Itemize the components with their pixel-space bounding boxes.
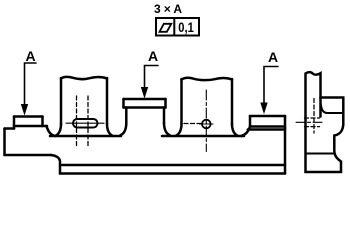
front view: right shoulder line <box>248 128 285 131</box>
svg-text:3 × A: 3 × A <box>154 2 182 16</box>
boss 1 cross-hole capsule <box>73 119 98 128</box>
boss 1 hidden hole right line <box>87 96 89 146</box>
svg-text:A: A <box>148 48 158 64</box>
section arrow A right: head <box>261 103 267 113</box>
section arrow A middle: head <box>142 88 148 98</box>
front view: right pad left edge <box>249 116 252 127</box>
side view outline <box>306 72 344 172</box>
side view step line <box>306 153 334 155</box>
front view: left step <box>5 127 15 130</box>
front view: middle pad rect top <box>124 98 166 101</box>
front view: left pad bottom line <box>14 125 47 128</box>
boss 2 centerline <box>205 90 207 152</box>
front view: web line under boss 2 <box>162 135 244 138</box>
front view: middle pad rect right <box>164 99 167 108</box>
boss 2 circle horizontal center mark <box>200 123 214 125</box>
front view: left pad top <box>14 115 43 118</box>
side view hole centerline <box>296 121 324 123</box>
boss 1 hidden hole left line <box>76 96 78 146</box>
front view: right pad left lower fillet <box>242 127 251 137</box>
boss 2 hidden horizontal line <box>184 123 202 125</box>
feature control frame box <box>156 18 199 36</box>
front view: boss 2 left base fillet <box>176 124 182 136</box>
section arrow A right: leader <box>264 67 278 105</box>
front view: left pad right edge <box>41 117 44 127</box>
front view: foot-to-rail fillet <box>51 155 60 174</box>
front view: boss 2 right edge <box>231 79 234 124</box>
front view: groove 1 left curve <box>47 126 56 136</box>
svg-text:A: A <box>26 48 36 64</box>
section arrow A left: head <box>22 105 28 115</box>
front view: middle pad rect left <box>122 99 125 108</box>
side view boss right edge lower extension <box>319 98 322 117</box>
feature control frame divider <box>173 18 175 36</box>
front view: middle pad pedestal right edge <box>163 108 166 124</box>
side view hole top hidden line <box>305 117 320 119</box>
front view: boss 2 right base fillet <box>232 124 238 136</box>
front view: left pad left edge <box>13 117 16 129</box>
front view: right pad top <box>250 115 285 118</box>
front view: pedestal 2 right fillet <box>164 123 170 135</box>
section arrow A left: leader <box>25 63 37 106</box>
front view: middle pad pedestal left edge <box>125 108 128 124</box>
boss 1 cross-hole centerline <box>66 122 104 124</box>
front view: boss 1 wavy top <box>61 77 107 79</box>
front view: foot bottom <box>5 154 52 157</box>
side view hidden vertical <box>313 99 315 134</box>
svg-text:A: A <box>268 49 278 65</box>
svg-text:0,1: 0,1 <box>178 19 194 35</box>
side view shoulder line <box>321 105 343 113</box>
front view: rail top line <box>62 164 285 167</box>
flatness symbol <box>160 24 172 32</box>
front view: boss 1 left base fillet <box>56 124 62 136</box>
front view: boss 1 right edge <box>106 78 109 124</box>
boss 2 center circle <box>202 120 211 129</box>
section arrow A middle: leader <box>145 66 159 90</box>
front view: web line under boss 1 <box>50 135 121 138</box>
front view: middle pad rect bottom <box>124 106 166 109</box>
front view: rail bottom <box>60 172 285 175</box>
front view: left edge <box>3 129 6 156</box>
front view: boss 2 left edge <box>180 79 183 124</box>
front view: boss 2 wavy top <box>182 78 233 80</box>
front view: right pad bottom line <box>251 125 285 128</box>
front view: boss 1 right base fillet <box>107 124 113 136</box>
side view hole bottom hidden line <box>305 126 320 128</box>
front view: boss 1 left edge <box>60 78 63 124</box>
front view: right edge <box>284 116 287 174</box>
front view: pedestal 2 left fillet <box>121 123 127 135</box>
